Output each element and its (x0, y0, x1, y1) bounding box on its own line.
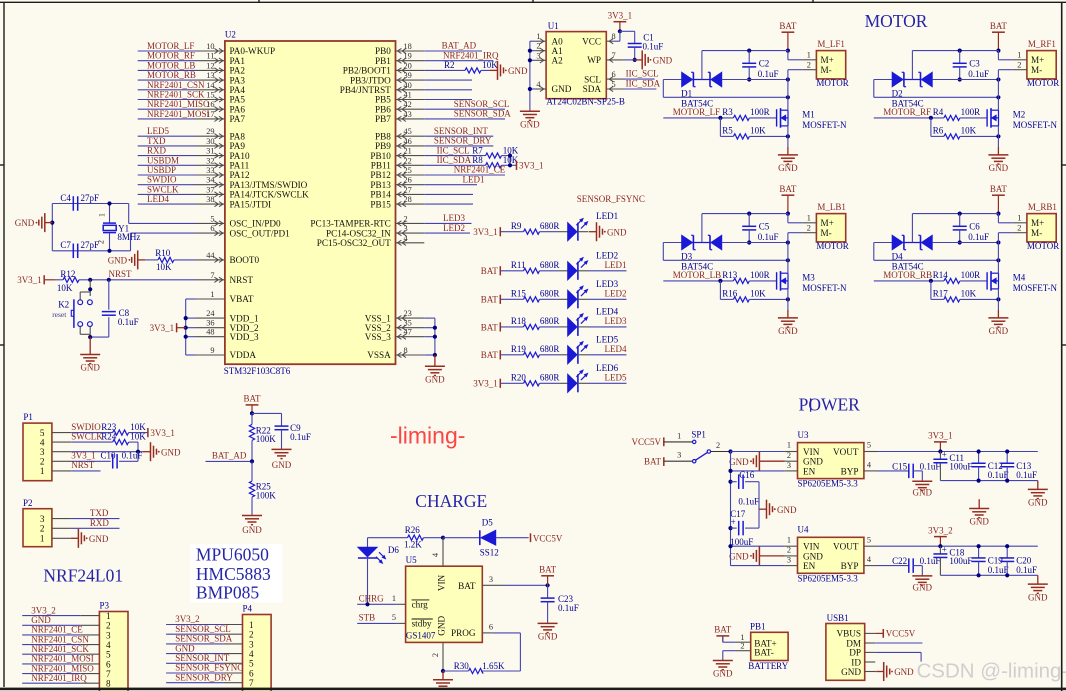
led LED3 (559, 298, 568, 300)
wire PB14 stub (424, 193, 473, 195)
svg-text:LED2: LED2 (443, 223, 465, 233)
svg-text:AT24C02BN-SP25-B: AT24C02BN-SP25-B (546, 97, 625, 107)
svg-text:7: 7 (612, 51, 616, 60)
svg-text:GND: GND (272, 460, 292, 470)
mcu U2 pin 17 PA7 wire/net NRF2401_MOSI (138, 118, 196, 120)
svg-text:ID: ID (851, 657, 861, 667)
svg-text:GND: GND (729, 552, 749, 562)
svg-text:5: 5 (40, 428, 45, 438)
svg-text:GND: GND (89, 534, 109, 544)
wire common cathode tap D3 (701, 214, 703, 243)
svg-text:SDA: SDA (583, 84, 602, 94)
connector P3 pin 5 net NRF2401_SCK (22, 653, 81, 655)
connector P3 pin 4 net NRF2401_CSN (22, 644, 81, 646)
svg-text:LED3: LED3 (596, 279, 618, 289)
svg-text:3V3_2: 3V3_2 (31, 605, 56, 615)
svg-text:26: 26 (404, 176, 412, 185)
net MOTOR_RF gate wire (874, 117, 944, 119)
svg-text:M4: M4 (1013, 272, 1026, 282)
wire output gnd rail U4 (940, 574, 1037, 576)
svg-text:2: 2 (807, 223, 811, 232)
svg-text:5: 5 (867, 441, 871, 450)
svg-text:4: 4 (40, 437, 45, 447)
resistor R22 100K (251, 413, 253, 424)
net LED1 wire at PB13 (424, 184, 477, 186)
svg-text:5: 5 (249, 659, 254, 669)
mcu U2 pin 2 PC13-TAMPER-RTC (396, 222, 425, 224)
svg-text:7: 7 (210, 271, 214, 280)
power port BAT for LED5 (499, 350, 501, 359)
svg-text:SENSOR_FSYNC: SENSOR_FSYNC (577, 194, 645, 204)
mcu U2 pin 22 PB11 (396, 164, 425, 166)
3V3_1 power rail to VDD pins (185, 299, 187, 355)
svg-text:R20: R20 (511, 372, 527, 382)
svg-text:2: 2 (536, 42, 540, 51)
svg-text:MOTOR: MOTOR (816, 78, 848, 88)
svg-text:VOUT: VOUT (833, 447, 859, 457)
net MOTOR_RB gate wire (874, 280, 944, 282)
svg-text:2: 2 (249, 630, 254, 640)
eeprom U1 pin 3 A2 (536, 59, 547, 61)
svg-text:VSS_1: VSS_1 (365, 313, 391, 323)
svg-text:13: 13 (206, 71, 214, 80)
svg-text:33: 33 (206, 166, 214, 175)
mcu U2 pin 28 PB15 (396, 203, 425, 205)
capacitor C1 0.1uF (620, 30, 635, 32)
eeprom U1 pin 4 GND (536, 88, 547, 90)
connector M_LF1 pin 2 M- (802, 69, 816, 71)
svg-text:680R: 680R (540, 372, 560, 382)
wire USB DP (875, 651, 921, 653)
usb USB1 pin ID (865, 661, 876, 663)
svg-text:PB0: PB0 (375, 46, 391, 56)
svg-text:8: 8 (404, 346, 408, 355)
svg-text:SWCLK: SWCLK (147, 184, 179, 194)
connector P2 pin 2 (52, 527, 71, 529)
svg-text:10K: 10K (130, 431, 146, 441)
ground at U3 pin 2 (759, 460, 784, 462)
charger U5 pin 4 VIN (442, 538, 444, 567)
svg-text:6: 6 (612, 70, 616, 79)
svg-text:R6: R6 (933, 126, 944, 136)
connector P1 pin 4 (52, 441, 72, 443)
power port 3V3_1 at R12 (43, 275, 45, 284)
svg-text:M+: M+ (1031, 55, 1044, 65)
svg-text:NRST: NRST (109, 269, 133, 279)
wire PB4/JNTRST stub (424, 89, 472, 91)
ground at U3 output rail (1037, 481, 1039, 490)
svg-text:1: 1 (249, 620, 254, 630)
svg-text:32: 32 (206, 156, 214, 165)
svg-text:GND: GND (80, 363, 100, 373)
mcu U2 pin 38 PA15/JTDI wire/net LED4 (138, 203, 196, 205)
svg-text:MOSFET-N: MOSFET-N (1013, 283, 1058, 293)
power port 3V3_1 (934, 441, 947, 443)
net BAT_AD wire (206, 460, 253, 462)
svg-text:MOSFET-N: MOSFET-N (802, 120, 847, 130)
svg-text:GND: GND (508, 66, 528, 76)
ground at M3 source (787, 289, 789, 310)
svg-text:BOOT0: BOOT0 (230, 255, 260, 265)
svg-text:U2: U2 (225, 29, 236, 39)
connector M_RB1 pin 1 M+ (1013, 222, 1027, 224)
svg-text:VSS_3: VSS_3 (365, 332, 391, 342)
svg-text:5: 5 (210, 214, 214, 223)
mcu U2 pin 13 PA3 wire/net MOTOR_RB (138, 79, 196, 81)
svg-text:3: 3 (536, 51, 540, 60)
svg-text:PB14: PB14 (370, 190, 391, 200)
svg-text:2: 2 (404, 214, 408, 223)
mcu U2 pin 36 VDD_2 (196, 327, 225, 329)
svg-text:VCC5V: VCC5V (631, 437, 661, 447)
svg-text:10K: 10K (961, 126, 977, 136)
svg-text:MOTOR: MOTOR (865, 11, 928, 31)
svg-text:HMC5883: HMC5883 (196, 564, 271, 584)
svg-text:SWDIO: SWDIO (147, 175, 177, 185)
svg-text:100uF: 100uF (949, 462, 972, 472)
svg-text:PA11: PA11 (230, 161, 250, 171)
svg-text:M1: M1 (802, 109, 815, 119)
mcu U2 pin 47 VSS_3 (396, 336, 425, 338)
mcu U2 pin 8 VSSA (396, 354, 425, 356)
ground at M4 source (997, 289, 999, 310)
svg-text:MOTOR_LF: MOTOR_LF (673, 107, 720, 117)
svg-text:GND: GND (538, 632, 558, 642)
svg-text:A1: A1 (552, 46, 564, 56)
sensor names text frame (190, 544, 283, 603)
connector P4 pin 1 net 3V3_2 (166, 624, 224, 626)
svg-text:18: 18 (404, 42, 412, 51)
svg-text:CHARGE: CHARGE (415, 491, 487, 511)
svg-text:SENSOR_DRY: SENSOR_DRY (175, 672, 233, 682)
svg-text:STM32F103C8T6: STM32F103C8T6 (224, 366, 291, 376)
eeprom U1 AT24C02BN body (546, 32, 606, 99)
svg-text:LED1: LED1 (463, 174, 485, 184)
svg-text:PA8: PA8 (230, 131, 246, 141)
svg-text:+: + (942, 450, 947, 460)
ground at U4 output rail (1037, 575, 1039, 584)
wire common cathode tap D2 (911, 51, 913, 80)
svg-text:3V3_1: 3V3_1 (17, 275, 42, 285)
svg-text:MOTOR_RF: MOTOR_RF (147, 51, 195, 61)
svg-text:29: 29 (206, 127, 214, 136)
ground at LED1 (589, 231, 597, 233)
svg-text:LED5: LED5 (596, 334, 618, 344)
svg-text:3: 3 (489, 575, 493, 584)
diode D5 SS12 (443, 537, 480, 539)
svg-text:WP: WP (587, 55, 601, 65)
svg-text:0.1uF: 0.1uF (758, 232, 779, 242)
svg-text:R4: R4 (933, 107, 944, 117)
svg-text:1: 1 (807, 214, 811, 223)
svg-text:LED1: LED1 (596, 211, 618, 221)
net SWDIO / resistor R23 10K (72, 432, 113, 434)
svg-text:SP6205EM5-3.3: SP6205EM5-3.3 (798, 479, 859, 489)
svg-text:2: 2 (1017, 60, 1021, 69)
svg-text:M_RB1: M_RB1 (1028, 202, 1057, 212)
ground at U4 pin 2 (759, 555, 784, 557)
svg-text:24: 24 (206, 309, 215, 318)
mcu U2 pin 46 PB9 (396, 145, 425, 147)
eeprom U1 pin 6 SCL (606, 78, 622, 80)
svg-text:R5: R5 (722, 126, 733, 136)
dual schottky diode D2 BAT54C (874, 79, 892, 81)
svg-text:C6: C6 (969, 221, 980, 231)
mcu U2 pin 11 PA1 wire/net MOTOR_RF (138, 60, 196, 62)
svg-text:1: 1 (787, 535, 791, 544)
svg-text:C5: C5 (759, 221, 770, 231)
svg-text:NRST: NRST (71, 460, 95, 470)
svg-text:MOTOR_LF: MOTOR_LF (147, 41, 194, 51)
ground at R25 (251, 514, 253, 517)
svg-text:PB11: PB11 (371, 161, 391, 171)
svg-text:C22: C22 (892, 556, 907, 566)
svg-text:3V3_1: 3V3_1 (519, 161, 544, 171)
mcu U2 pin 10 PA0-WKUP wire/net MOTOR_LF (138, 50, 196, 52)
net RXD wire (71, 527, 120, 529)
svg-text:CHRG: CHRG (359, 594, 385, 604)
svg-text:100uF: 100uF (730, 537, 753, 547)
svg-text:P2: P2 (23, 498, 33, 508)
svg-text:BAT: BAT (481, 350, 499, 360)
svg-text:27pF: 27pF (81, 193, 100, 203)
svg-text:VBUS: VBUS (836, 629, 861, 639)
wire BAT rail M_LB1 (702, 213, 788, 215)
svg-text:44: 44 (206, 251, 215, 260)
mcu U2 pin 43 PB7 (396, 118, 425, 120)
power port BAT for M_LB1 (782, 194, 795, 196)
svg-text:LED5: LED5 (147, 126, 169, 136)
svg-text:R7: R7 (472, 145, 483, 155)
svg-text:9: 9 (210, 346, 214, 355)
svg-text:MOTOR_RB: MOTOR_RB (883, 270, 932, 280)
svg-text:45: 45 (404, 127, 412, 136)
svg-text:GND: GND (713, 669, 733, 679)
mcu U2 pin 12 PA2 wire/net MOTOR_LB (138, 69, 196, 71)
polarized capacitor C11 100uF (939, 452, 941, 460)
capacitor C20 0.1uF (1006, 546, 1008, 558)
svg-text:VCC5V: VCC5V (533, 533, 563, 543)
svg-text:7: 7 (249, 678, 254, 688)
capacitor C8 0.1uF (108, 280, 110, 310)
wire regulator input rail (730, 452, 732, 566)
svg-text:2: 2 (787, 546, 791, 555)
ground at P1 (143, 451, 151, 453)
power port 3V3_1 at U1 (614, 21, 627, 23)
svg-text:PB1: PB1 (750, 621, 766, 631)
floating ground between rails (978, 499, 980, 508)
svg-text:PB2/BOOT1: PB2/BOOT1 (343, 66, 391, 76)
power port BAT at divider (246, 404, 259, 406)
svg-text:NRF2401_IRQ: NRF2401_IRQ (31, 673, 87, 683)
svg-text:P1: P1 (23, 412, 33, 422)
connector P4 pin 4 net GND (166, 653, 224, 655)
svg-text:LED5: LED5 (605, 373, 627, 383)
svg-text:1.2K: 1.2K (404, 540, 422, 550)
svg-text:BAT: BAT (539, 565, 557, 575)
dual schottky diode D4 BAT54C (874, 242, 892, 244)
regulator U3 pin 5 VOUT wire (864, 451, 877, 453)
wire common cathode tap D4 (911, 214, 913, 243)
svg-text:2: 2 (740, 641, 744, 650)
svg-text:C2: C2 (759, 58, 770, 68)
svg-text:GND: GND (803, 457, 823, 467)
resistor R12 10K (55, 279, 63, 281)
svg-text:MOTOR_RF: MOTOR_RF (883, 107, 931, 117)
net IIC_SCL / resistor R7 10K pullup at PB10 (424, 155, 485, 157)
resistor R15 680R (501, 298, 524, 300)
svg-text:U1: U1 (548, 21, 559, 31)
power port 3V3_1 for LED1 (499, 227, 501, 236)
mcu U2 pin 44 BOOT0 (196, 259, 225, 261)
svg-text:NRF2401_SCK: NRF2401_SCK (31, 644, 89, 654)
regulator U3 SP6205EM5 body (798, 443, 864, 479)
capacitor C4 27pF (52, 203, 128, 205)
regulator U4 SP6205EM5 body (798, 537, 864, 573)
resistor R5 10K pulldown (719, 118, 721, 136)
svg-text:VDDA: VDDA (230, 350, 257, 360)
svg-text:BAT: BAT (779, 184, 797, 194)
capacitor C13 0.1uF (1006, 452, 1008, 464)
regulator U4 pin 3 EN wire (785, 565, 798, 567)
ground at C15 (921, 479, 923, 482)
svg-text:stdby: stdby (412, 619, 432, 629)
wire flyback loop M_LB1 (749, 242, 788, 244)
svg-text:VBAT: VBAT (230, 294, 254, 304)
svg-text:40: 40 (404, 81, 412, 90)
svg-text:23: 23 (404, 309, 412, 318)
svg-text:PA10: PA10 (230, 151, 250, 161)
svg-text:P4: P4 (243, 603, 253, 613)
svg-text:47: 47 (404, 328, 412, 337)
svg-text:GND: GND (1028, 592, 1048, 602)
crystal Y1 8MHz (109, 204, 111, 223)
svg-text:46: 46 (404, 137, 412, 146)
svg-text:5: 5 (612, 80, 616, 89)
svg-text:LED1: LED1 (605, 260, 627, 270)
svg-text:PB3/JTDO: PB3/JTDO (350, 75, 391, 85)
power port 3V3_1 for LED6 (499, 379, 501, 388)
svg-text:0.1uF: 0.1uF (738, 497, 759, 507)
led D6 charge indicator (367, 538, 369, 548)
svg-text:GND: GND (913, 488, 933, 498)
ground under U1 (529, 110, 531, 113)
mcu U2 pin 35 VSS_2 (396, 327, 425, 329)
svg-text:100R: 100R (961, 107, 981, 117)
resistor R20 680R (501, 382, 524, 384)
dual schottky diode D3 BAT54C (663, 242, 681, 244)
svg-text:M3: M3 (802, 272, 815, 282)
ground at M1 source (787, 126, 789, 147)
svg-text:SWCLK: SWCLK (71, 431, 103, 441)
svg-text:27: 27 (404, 185, 412, 194)
svg-text:NRF2401_CSN: NRF2401_CSN (31, 634, 89, 644)
svg-text:3: 3 (787, 461, 791, 470)
regulator U4 pin 1 VIN wire (785, 545, 798, 547)
svg-text:1: 1 (210, 290, 214, 299)
svg-text:SP6205EM5-3.3: SP6205EM5-3.3 (798, 573, 859, 583)
regulator U3 pin 2 GND (785, 460, 798, 462)
svg-text:PA2: PA2 (230, 66, 246, 76)
ground at C22 (921, 574, 923, 577)
regulator U4 pin 5 VOUT wire (864, 545, 877, 547)
svg-text:PB6: PB6 (375, 104, 391, 114)
eeprom U1 pin 8 VCC (606, 40, 614, 42)
wire switch pole to regulators (711, 451, 731, 453)
svg-text:100K: 100K (256, 491, 277, 501)
svg-text:PB10: PB10 (370, 151, 391, 161)
svg-text:NRF2401_MOSI: NRF2401_MOSI (31, 654, 94, 664)
svg-text:2: 2 (40, 524, 45, 534)
svg-text:IIC_SCL: IIC_SCL (626, 68, 659, 78)
svg-text:100R: 100R (750, 107, 770, 117)
svg-text:K2: K2 (58, 300, 69, 310)
svg-text:VCC5V: VCC5V (886, 629, 916, 639)
wire U1 address pins rail (530, 40, 536, 42)
svg-text:43: 43 (404, 110, 412, 119)
svg-text:PB4/JNTRST: PB4/JNTRST (340, 85, 391, 95)
svg-text:GND: GND (989, 326, 1009, 336)
svg-text:3: 3 (677, 451, 681, 460)
svg-text:R11: R11 (511, 260, 526, 270)
svg-text:22: 22 (404, 156, 412, 165)
connector P4 pin 5 net SENSOR_INT (166, 662, 224, 664)
wire OSC_OUT riser (130, 233, 132, 251)
capacitor C12 0.1uF (978, 452, 980, 464)
svg-text:BAT: BAT (481, 295, 499, 305)
power port BAT for M_RF1 (992, 31, 1005, 33)
svg-text:5: 5 (392, 613, 396, 622)
svg-text:GND: GND (15, 218, 35, 228)
net SENSOR_INT wire at PB8 (424, 135, 493, 137)
svg-text:10K: 10K (750, 126, 766, 136)
svg-text:GND: GND (437, 615, 447, 635)
svg-text:21: 21 (404, 147, 412, 156)
svg-text:NRF2401_MOSI: NRF2401_MOSI (147, 109, 210, 119)
regulator U3 pin 3 EN wire (785, 470, 798, 472)
led LED2 (559, 270, 568, 272)
mcu U2 pin 37 PA14/JTCK/SWCLK wire/net SWCLK (138, 193, 196, 195)
svg-text:M-: M- (1031, 65, 1042, 75)
svg-text:C15: C15 (892, 461, 908, 471)
eeprom U1 pin 5 SDA (606, 88, 622, 90)
ground at U5 (442, 671, 444, 680)
mcu U2 pin 27 PB14 (396, 193, 425, 195)
svg-text:GND: GND (841, 667, 861, 677)
net SENSOR_SCL wire at PB6 (424, 108, 505, 110)
capacitor C23 0.1uF (547, 585, 549, 598)
svg-text:LED3: LED3 (605, 316, 627, 326)
connector M_LB1 pin 1 M+ (802, 222, 816, 224)
connector P4 pin 3 net SENSOR_SDA (166, 643, 224, 645)
charger U5 pin 1 chrg (357, 603, 397, 605)
mcu U2 pin 7 NRST (196, 279, 225, 281)
power port BAT for M_RB1 (992, 194, 1005, 196)
connector M_RF1 pin 1 M+ (1013, 59, 1027, 61)
svg-text:8MHz: 8MHz (117, 232, 140, 242)
mcu U2 pin 31 PA10 wire/net RXD (138, 155, 196, 157)
svg-text:PB12: PB12 (370, 170, 391, 180)
svg-text:GND: GND (1028, 498, 1048, 508)
ground at M2 source (997, 126, 999, 147)
connector P1 pin 2 (52, 460, 72, 462)
svg-text:3V3_1: 3V3_1 (608, 11, 633, 21)
connector P1 pin 5 (52, 432, 72, 434)
svg-text:GND: GND (108, 256, 128, 266)
svg-text:GND: GND (729, 457, 749, 467)
ground at crystal (45, 222, 53, 224)
svg-text:3: 3 (404, 224, 408, 233)
